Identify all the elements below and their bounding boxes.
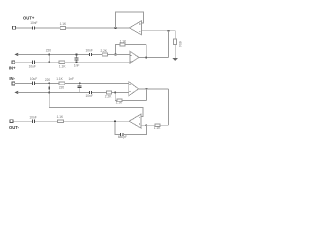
- junction: [114, 92, 116, 94]
- connector arrow sense+: [14, 53, 18, 56]
- pin glyph U1 bottom: [139, 31, 140, 33]
- junction: [76, 54, 78, 56]
- svg-text:10nF: 10nF: [86, 48, 93, 52]
- connector arrow sense-: [14, 91, 18, 94]
- op-amp U3: [129, 82, 139, 96]
- wire: [15, 82, 32, 84]
- wire: [65, 82, 129, 84]
- wire feedback branch U3: [115, 92, 117, 100]
- terminal OUT+: [12, 26, 15, 29]
- wire: [35, 61, 59, 63]
- wire sense rail -: [18, 91, 89, 93]
- wire: [174, 31, 176, 39]
- resistor R12 body: [48, 86, 50, 89]
- pin glyph U3 bottom: [129, 90, 130, 92]
- svg-text:10uF: 10uF: [30, 77, 37, 81]
- wire sense rail +: [18, 53, 89, 55]
- svg-text:IN-: IN-: [9, 76, 15, 81]
- junction: [48, 61, 50, 63]
- capacitor C2: [89, 53, 91, 56]
- wire: [35, 120, 58, 122]
- resistor R11: [58, 120, 64, 123]
- svg-text:1.1K: 1.1K: [120, 40, 127, 44]
- junction: [76, 61, 78, 63]
- svg-text:10nF: 10nF: [86, 94, 93, 98]
- svg-text:680pF: 680pF: [118, 135, 127, 139]
- wire link: [48, 54, 50, 62]
- wire output U3: [139, 88, 169, 90]
- junction: [145, 124, 147, 126]
- wire: [92, 53, 102, 55]
- svg-text:1.1K: 1.1K: [116, 101, 123, 105]
- wire feedback branch U2: [145, 45, 147, 58]
- op-amp U2: [130, 51, 139, 63]
- wire: [125, 44, 146, 46]
- wire: [141, 30, 175, 32]
- terminal OUT-: [10, 120, 13, 123]
- op-amp U4: [129, 114, 141, 128]
- wire: [145, 89, 147, 101]
- junction: [145, 57, 147, 59]
- svg-text:IN+: IN+: [9, 66, 16, 71]
- svg-text:10uF: 10uF: [29, 65, 36, 69]
- wire: [65, 27, 129, 29]
- resistor R9: [117, 99, 122, 102]
- capacitor C7: [89, 91, 91, 94]
- svg-text:1.1K: 1.1K: [60, 22, 67, 26]
- resistor R7: [59, 82, 65, 85]
- svg-text:2.2K: 2.2K: [101, 49, 108, 53]
- junction: [48, 82, 50, 84]
- wire: [13, 120, 32, 122]
- resistor R1: [60, 27, 65, 30]
- resistor R10: [155, 124, 160, 127]
- svg-text:604: 604: [178, 41, 182, 47]
- pin glyph U4 top: [139, 117, 140, 119]
- wire: [174, 45, 176, 58]
- junction: [146, 88, 148, 90]
- op-amp U1: [129, 21, 141, 35]
- wire: [111, 91, 128, 93]
- pin glyph U4 bottom: [139, 123, 140, 125]
- svg-text:OUT-: OUT-: [9, 125, 20, 130]
- svg-text:1nF: 1nF: [74, 63, 80, 67]
- svg-text:10nF: 10nF: [29, 115, 36, 119]
- wire: [123, 125, 146, 134]
- capacitor C8: [121, 133, 123, 136]
- wire: [92, 91, 106, 93]
- capacitor C6 vertical: [79, 83, 81, 85]
- wire: [116, 45, 121, 55]
- svg-text:220: 220: [46, 48, 52, 52]
- svg-text:1.1K: 1.1K: [154, 126, 161, 130]
- wire: [122, 99, 146, 101]
- terminal IN-: [12, 82, 15, 85]
- wire: [15, 61, 32, 63]
- capacitor C3: [32, 61, 34, 64]
- svg-text:1.1K: 1.1K: [56, 77, 63, 81]
- resistor R5: [102, 53, 108, 56]
- junction: [115, 54, 117, 56]
- wire: [65, 61, 130, 63]
- wire sense link to U4: [49, 92, 143, 116]
- resistor R8: [106, 91, 111, 94]
- ground: [172, 58, 178, 61]
- wire: [35, 27, 60, 29]
- wire output U2: [139, 56, 169, 58]
- junction: [48, 54, 50, 56]
- capacitor C5: [32, 82, 34, 85]
- wire: [15, 27, 32, 29]
- pin glyph U2 bottom: [130, 60, 131, 62]
- svg-text:1.1K: 1.1K: [59, 65, 66, 69]
- junction: [79, 82, 81, 84]
- wire: [168, 31, 170, 58]
- wire: [108, 53, 130, 55]
- capacitor C9: [32, 120, 34, 123]
- svg-text:1.1K: 1.1K: [57, 115, 64, 119]
- wire: [160, 124, 168, 126]
- svg-text:220: 220: [45, 78, 51, 82]
- wire feedback loop U1: [116, 12, 144, 28]
- resistor R3: [120, 43, 125, 46]
- junction: [114, 120, 116, 122]
- svg-text:220: 220: [59, 86, 65, 90]
- svg-text:1nF: 1nF: [69, 77, 75, 81]
- pin glyph U3 top: [129, 83, 130, 85]
- wire: [35, 82, 59, 84]
- wire: [168, 89, 170, 125]
- capacitor C4 vertical: [76, 60, 78, 62]
- pin glyph U2 top: [130, 55, 131, 57]
- terminal IN+: [12, 61, 15, 64]
- junction: [48, 92, 50, 94]
- wire feedback loop U4: [115, 121, 120, 134]
- junction: [168, 30, 170, 32]
- wire output U4 / OUT- rail: [64, 120, 130, 122]
- resistor R2: [174, 39, 177, 45]
- wire link-: [48, 83, 50, 92]
- resistor R6: [59, 61, 65, 64]
- junction: [115, 27, 117, 29]
- svg-text:OUT+: OUT+: [23, 15, 35, 20]
- pin glyph U1 top: [139, 23, 140, 25]
- wire: [141, 124, 155, 126]
- svg-text:10nF: 10nF: [30, 21, 37, 25]
- svg-text:2.2K: 2.2K: [105, 95, 112, 99]
- capacitor C1: [32, 26, 34, 29]
